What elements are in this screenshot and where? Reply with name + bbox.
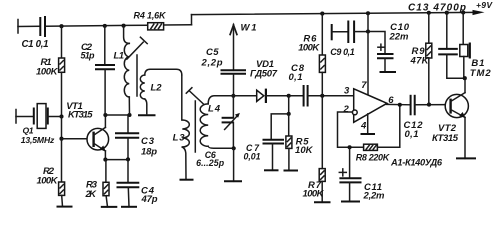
svg-text:W1: W1: [241, 23, 257, 34]
svg-text:L1: L1: [114, 50, 125, 61]
capacitor C7 0,01: [244, 140, 285, 171]
wire to C7: [271, 114, 289, 140]
svg-text:47p: 47p: [141, 194, 158, 205]
resistor R8 220K: [356, 144, 391, 162]
svg-text:ТМ2: ТМ2: [470, 68, 492, 79]
node C7 branch: [287, 112, 291, 116]
svg-text:47K: 47K: [410, 56, 430, 67]
svg-text:10K: 10K: [295, 145, 314, 156]
node base VT2 / R9: [427, 103, 431, 107]
wire tank bottom to ground: [233, 148, 235, 181]
wire main detector line: [215, 95, 257, 97]
ground under C7: [264, 169, 279, 171]
resistor R9 47K: [410, 13, 432, 105]
resistor R5 10K: [286, 114, 314, 171]
capacitor C2 51p: [81, 26, 116, 115]
svg-text:51p: 51p: [81, 51, 96, 61]
wire VT2 collector: [464, 78, 466, 92]
inductor L1: [114, 26, 130, 115]
L1 core line: [136, 55, 138, 96]
svg-text:100K: 100K: [303, 189, 325, 200]
node pin7 line / C9 C10: [366, 29, 370, 33]
L4 adjust arrow: [186, 88, 204, 105]
wire L2 top to L3 top: [150, 69, 182, 75]
resistor R7 100K: [303, 96, 326, 203]
wire base: [62, 138, 94, 140]
svg-text:R4 1,6K: R4 1,6K: [134, 11, 168, 21]
ground under VT2: [456, 157, 476, 159]
svg-text:3: 3: [344, 85, 350, 96]
svg-text:C5: C5: [206, 47, 219, 58]
wire top rail left segment: [18, 25, 192, 27]
diode VD1 GD507: [250, 59, 289, 103]
svg-text:C9 0,1: C9 0,1: [330, 47, 355, 57]
node tank bottom: [232, 146, 236, 150]
svg-text:0,1: 0,1: [289, 72, 303, 83]
core line L3-L4: [194, 101, 196, 152]
node rail-R6: [320, 12, 324, 16]
svg-text:КТ315: КТ315: [432, 133, 459, 144]
resistor R2: [37, 166, 65, 195]
capacitor C13 4700p: [438, 13, 465, 79]
svg-text:13,5MHz: 13,5MHz: [21, 135, 55, 145]
wire top rail right segment to +9V: [192, 12, 475, 14]
node diode out: [287, 94, 291, 98]
svg-text:100K: 100K: [37, 175, 59, 186]
phone B1 TM2: [460, 13, 492, 80]
wire pin4 to ground: [367, 114, 369, 134]
capacitor C12 0,1: [404, 95, 451, 140]
resistor R6 100K: [298, 14, 325, 96]
ground pin4: [361, 133, 376, 135]
node rail C13: [445, 11, 449, 15]
wire crystal node to base node: [61, 117, 63, 139]
svg-text:0,01: 0,01: [244, 152, 261, 162]
wire VT1 collector up: [104, 115, 106, 127]
capacitor C5 2,2p: [201, 47, 247, 96]
ground under L3: [180, 179, 194, 181]
svg-text:L4: L4: [208, 104, 221, 115]
crystal Q1 13,5MHz: [21, 104, 62, 145]
node emitter: [103, 158, 107, 162]
wire pin7: [367, 13, 369, 95]
node rail pin7: [366, 11, 370, 15]
resistor R4 1,6K: [134, 11, 168, 30]
wire R2 to ground: [61, 195, 64, 206]
+9V supply arrow: [473, 0, 494, 15]
svg-text:R8 220K: R8 220K: [356, 153, 391, 163]
capacitor C10 22m electrolytic: [368, 22, 410, 72]
svg-text:KT315: KT315: [68, 110, 93, 121]
node C3-C4 junction: [126, 157, 130, 161]
inductor L4: [200, 96, 234, 149]
ground under R5: [284, 170, 299, 172]
op-amp A1 K140UD6: [343, 80, 443, 168]
capacitor C9 0,1: [330, 21, 368, 58]
wire VT2 emitter: [464, 117, 466, 158]
svg-text:A1-К140УД6: A1-К140УД6: [390, 158, 443, 168]
node C11 branch: [348, 145, 352, 149]
svg-text:2: 2: [343, 104, 350, 115]
svg-text:L3: L3: [173, 133, 186, 144]
svg-text:100K: 100K: [298, 43, 320, 54]
svg-text:2,2p: 2,2p: [201, 58, 223, 69]
svg-text:+9V: +9V: [476, 0, 493, 10]
svg-text:Q1: Q1: [23, 126, 34, 136]
ground under R2: [57, 206, 73, 208]
capacitor C4 47p: [117, 159, 158, 206]
svg-text:7: 7: [361, 80, 367, 91]
transistor VT1 KT315: [66, 101, 108, 152]
transistor VT2 KT315: [432, 93, 468, 144]
svg-text:2K: 2K: [85, 189, 98, 200]
capacitor C11 2,2m electrolytic: [339, 147, 385, 201]
node L1 bottom: [127, 113, 131, 117]
svg-text:0,1: 0,1: [405, 129, 419, 140]
wire emitter to R3: [105, 160, 107, 183]
svg-text:2,2m: 2,2m: [363, 191, 386, 202]
L1 adjust arrow: [127, 37, 147, 59]
ground under C10: [380, 71, 397, 73]
svg-text:ГД507: ГД507: [250, 69, 278, 80]
svg-text:4: 4: [360, 121, 367, 132]
wire R1 to crystal node: [61, 72, 63, 116]
wire R3 to ground: [106, 196, 107, 207]
node crystal junction: [59, 114, 63, 118]
inductor L3: [173, 75, 190, 180]
capacitor C8 0,1: [289, 63, 354, 107]
capacitor C1: [22, 16, 49, 50]
svg-text:18p: 18p: [141, 147, 157, 158]
svg-text:22m: 22m: [389, 31, 410, 42]
node C5/main wire cross: [231, 94, 235, 98]
wire base node to R2: [61, 139, 63, 182]
capacitor C3 18p: [115, 115, 157, 159]
node base junction: [59, 137, 63, 141]
wire R1 branch: [61, 26, 63, 58]
ground under C4: [121, 206, 137, 208]
node rail-R1: [59, 24, 63, 28]
wire pin2 feedback: [338, 112, 364, 147]
wire collector node: [105, 114, 129, 116]
node output: [398, 103, 402, 107]
L2 bottom terminal bar: [138, 114, 156, 116]
wire to C8: [289, 95, 304, 97]
antenna W1: [230, 23, 256, 71]
svg-text:100K: 100K: [36, 67, 59, 78]
wire to crystal: [16, 116, 34, 118]
svg-text:C13 4700p: C13 4700p: [408, 3, 466, 14]
svg-text:C3: C3: [141, 136, 155, 147]
node rail-L1: [122, 24, 126, 28]
svg-text:6...25p: 6...25p: [196, 158, 225, 168]
wire C7 branch: [288, 96, 290, 114]
ground under C11: [341, 201, 360, 203]
ground under R7: [314, 201, 331, 203]
resistor R1: [36, 57, 65, 78]
inductor L2: [140, 69, 162, 113]
wire VT1 emitter down: [104, 151, 106, 160]
wire output pin6: [387, 103, 411, 105]
wire R8 to output: [377, 105, 399, 148]
node rail R9: [427, 11, 431, 15]
svg-text:L2: L2: [151, 83, 163, 94]
node rail B1: [461, 10, 465, 14]
wire emitter to C3C4: [105, 159, 127, 161]
svg-text:C1 0,1: C1 0,1: [22, 39, 49, 50]
node C8 out: [320, 94, 324, 98]
input terminal (top): [17, 20, 19, 34]
node collector VT2: [463, 76, 467, 80]
ground under tank: [224, 180, 242, 182]
wire top rail step up: [191, 15, 193, 25]
input terminal (bottom): [15, 110, 17, 124]
capacitor C6 6..25p variable: [196, 96, 240, 168]
node rail-C2: [103, 24, 107, 28]
node collector: [103, 113, 107, 117]
resistor R3: [85, 180, 110, 200]
ground under R3: [101, 206, 118, 208]
